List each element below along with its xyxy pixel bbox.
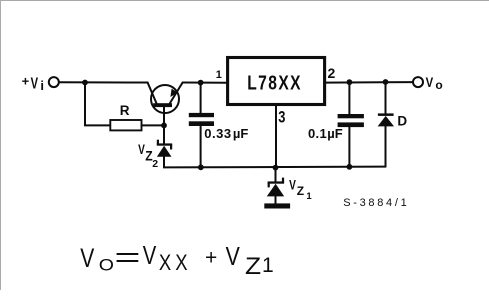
wire resistor to base node bbox=[142, 124, 164, 126]
svg-text:V: V bbox=[426, 75, 434, 90]
svg-text:i: i bbox=[40, 78, 44, 93]
resistor R bbox=[110, 120, 141, 130]
wire diode bottom bbox=[385, 126, 387, 166]
IC U1 L78XX bbox=[228, 58, 325, 105]
svg-text:V: V bbox=[31, 75, 38, 92]
wire C1 to bottom rail bbox=[200, 126, 202, 167]
zener VZ1 bbox=[267, 178, 284, 197]
wire diode top bbox=[385, 82, 387, 114]
wire VZ1 to ground bbox=[275, 196, 277, 203]
svg-text:=: = bbox=[114, 241, 140, 272]
transistor Q1 base bar bbox=[153, 103, 172, 107]
transistor Q1 emitter arrow bbox=[170, 89, 177, 97]
svg-text:3: 3 bbox=[278, 109, 285, 127]
svg-text:2: 2 bbox=[152, 158, 158, 170]
svg-text:V: V bbox=[289, 177, 296, 193]
svg-text:o: o bbox=[435, 78, 442, 92]
wire VZ1 top bbox=[275, 168, 277, 182]
capacitor C2 0.1uF bbox=[338, 114, 364, 127]
svg-text:1: 1 bbox=[306, 191, 312, 202]
zener VZ2 bbox=[157, 140, 172, 157]
terminal Vo bbox=[413, 77, 423, 87]
svg-text:µF: µF bbox=[327, 126, 342, 141]
node rail C2 bbox=[347, 164, 353, 170]
svg-text:V: V bbox=[143, 240, 157, 269]
formula Vo = Vxx + Vz1 bbox=[80, 240, 273, 279]
svg-text:2: 2 bbox=[328, 65, 336, 81]
node output diode bbox=[383, 79, 389, 85]
svg-text:1: 1 bbox=[216, 69, 222, 81]
wire junction down to resistor bbox=[85, 83, 110, 126]
transistor Q1 body bbox=[151, 85, 179, 113]
transistor Q1 base lead bbox=[163, 107, 165, 125]
svg-text:Z: Z bbox=[297, 184, 304, 198]
svg-text:+: + bbox=[22, 74, 30, 89]
node rail C1 bbox=[198, 164, 204, 170]
wire input rail bbox=[59, 81, 148, 83]
wire down to C1 bbox=[200, 83, 202, 113]
svg-text:µF: µF bbox=[233, 126, 248, 141]
terminal +Vi bbox=[49, 77, 59, 87]
wire pin2 to output bbox=[326, 81, 413, 84]
node base junction bbox=[161, 123, 167, 129]
svg-text:0.1: 0.1 bbox=[308, 126, 327, 141]
svg-text:1: 1 bbox=[262, 254, 274, 277]
transistor Q1 emitter lead bbox=[170, 83, 183, 104]
transistor Q1 collector lead bbox=[148, 83, 157, 104]
svg-text:0.33: 0.33 bbox=[204, 126, 232, 141]
svg-text:XX: XX bbox=[159, 252, 192, 276]
wire C2 bottom bbox=[348, 127, 350, 167]
svg-text:S-3884/1: S-3884/1 bbox=[343, 197, 409, 209]
wire C2 top bbox=[348, 82, 350, 114]
node input junction bbox=[82, 80, 88, 86]
diode D bbox=[378, 113, 394, 126]
wire VZ2 to bottom rail bbox=[164, 157, 386, 168]
ground bbox=[264, 203, 290, 208]
svg-text:V: V bbox=[80, 244, 95, 274]
svg-text:V: V bbox=[226, 242, 240, 272]
node output C2 bbox=[347, 79, 353, 85]
svg-text:R: R bbox=[120, 103, 130, 118]
svg-text:D: D bbox=[397, 114, 407, 129]
svg-text:O: O bbox=[99, 255, 114, 274]
wire emitter to pin1 bbox=[183, 82, 227, 84]
svg-text:L78XX: L78XX bbox=[247, 71, 302, 93]
svg-text:Z: Z bbox=[245, 253, 261, 280]
wire pin3 down bbox=[275, 106, 277, 168]
svg-text:+: + bbox=[205, 247, 217, 270]
node pin1 junction bbox=[198, 80, 204, 86]
svg-text:V: V bbox=[138, 141, 145, 157]
wire base node to zener VZ2 bbox=[163, 125, 165, 143]
node rail pin3 bbox=[273, 165, 279, 171]
capacitor C1 0.33uF bbox=[189, 113, 214, 126]
